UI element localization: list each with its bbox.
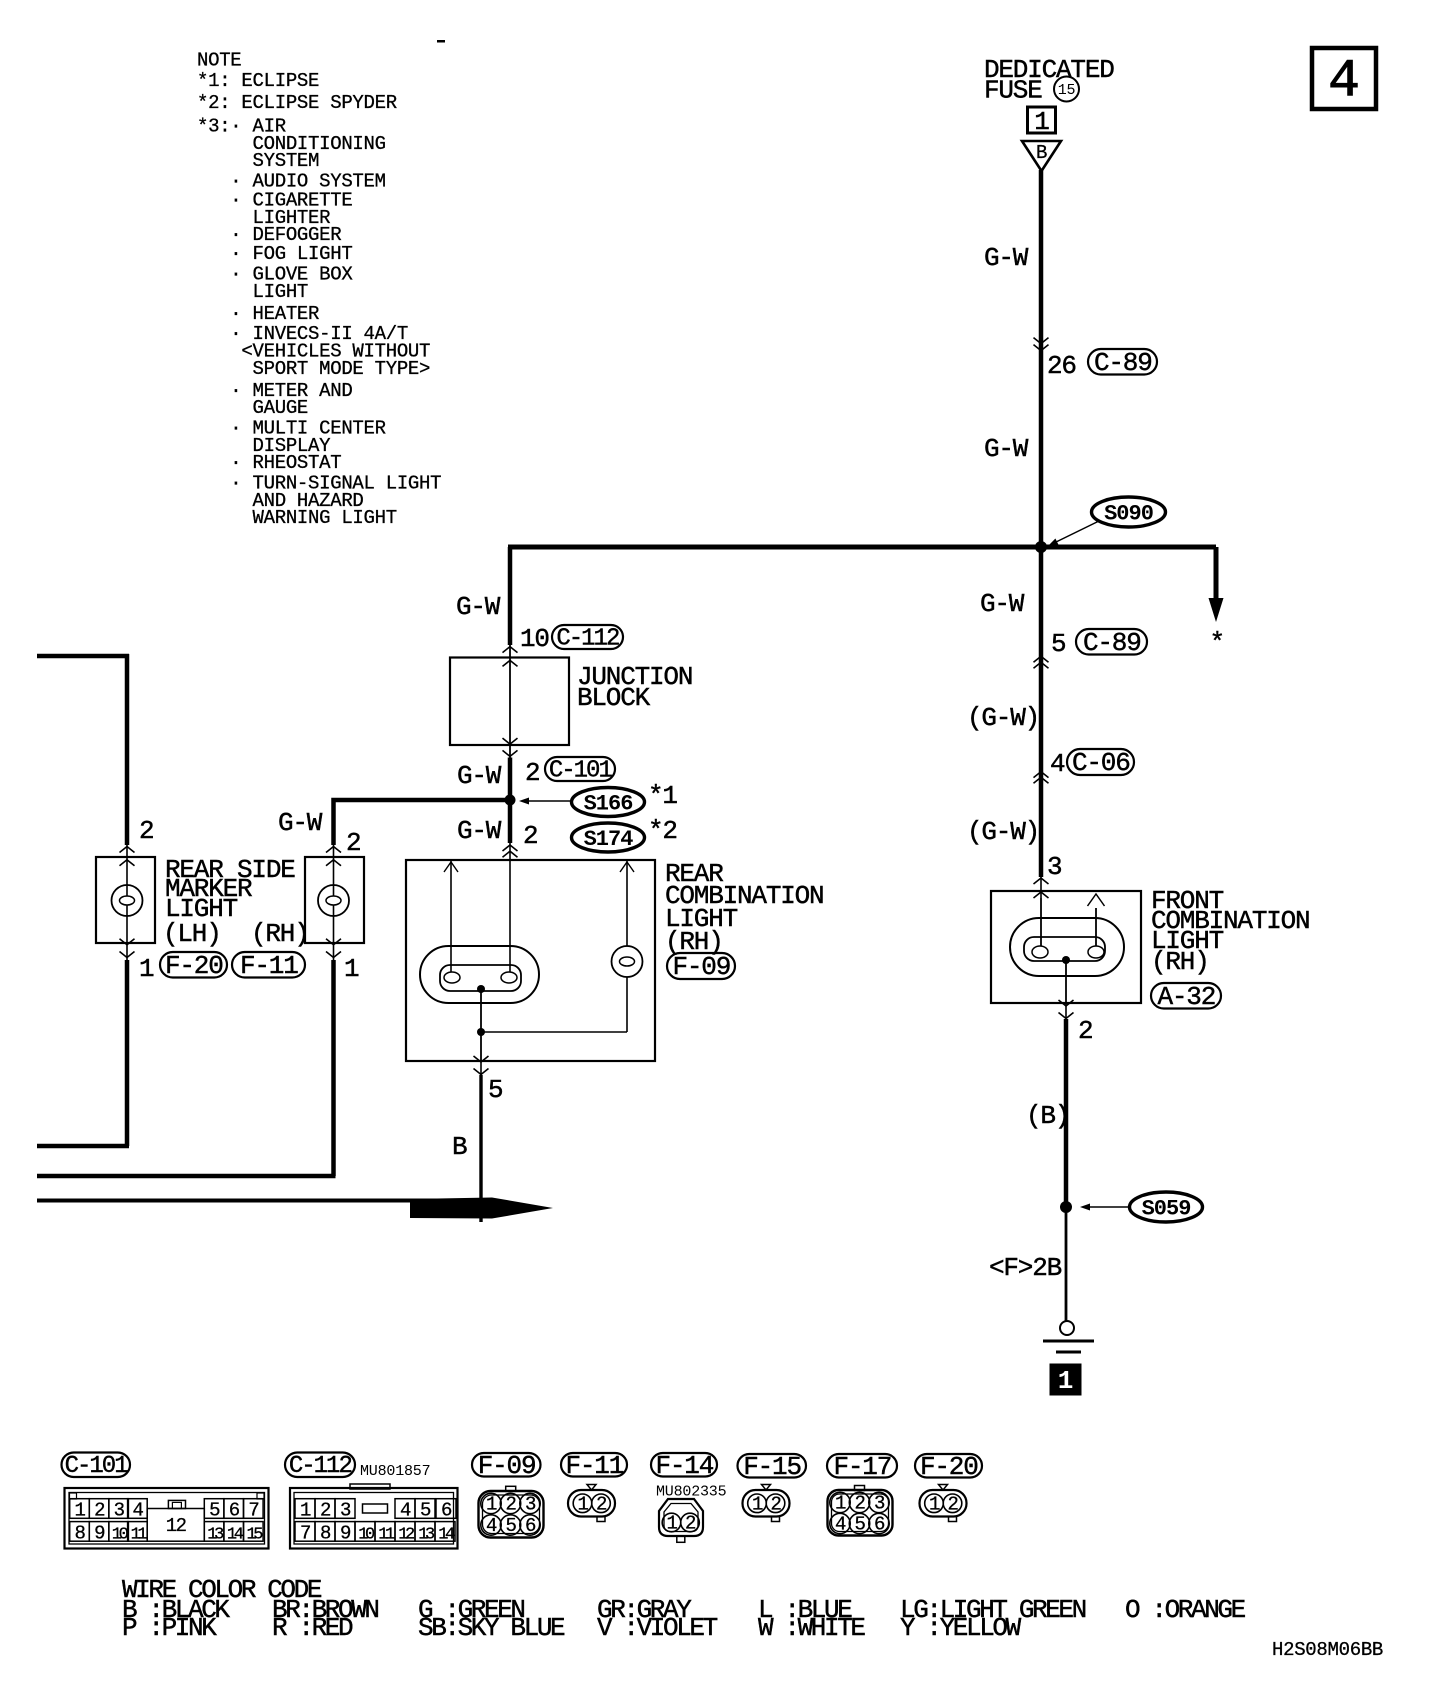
svg-text:9: 9 xyxy=(94,1522,105,1544)
svg-text:12: 12 xyxy=(398,1525,414,1544)
svg-text:*2: *2 xyxy=(648,816,677,846)
svg-text:WARNING LIGHT: WARNING LIGHT xyxy=(197,507,397,529)
svg-text:B: B xyxy=(1036,142,1047,164)
svg-text:F-14: F-14 xyxy=(656,1451,714,1481)
svg-text:2: 2 xyxy=(523,821,537,851)
svg-text:6: 6 xyxy=(525,1515,536,1537)
svg-text:1: 1 xyxy=(578,1493,589,1515)
svg-text:4: 4 xyxy=(1050,749,1065,779)
svg-text:G-W: G-W xyxy=(457,761,502,791)
svg-text:2: 2 xyxy=(855,1493,866,1515)
svg-text:· RHEOSTAT: · RHEOSTAT xyxy=(197,452,341,474)
svg-text:3: 3 xyxy=(114,1500,125,1522)
svg-text:B: B xyxy=(452,1132,467,1162)
svg-text:1: 1 xyxy=(929,1493,940,1515)
svg-text:G-W: G-W xyxy=(457,816,502,846)
svg-text:· FOG LIGHT: · FOG LIGHT xyxy=(197,243,352,265)
svg-text:1: 1 xyxy=(344,954,359,984)
svg-text:MU801857: MU801857 xyxy=(360,1463,430,1480)
svg-text:1: 1 xyxy=(486,1494,497,1516)
svg-text:*1: *1 xyxy=(648,781,677,811)
svg-text:F-17: F-17 xyxy=(834,1452,892,1482)
svg-text:G-W: G-W xyxy=(456,592,501,622)
svg-text:6: 6 xyxy=(874,1514,885,1536)
svg-text:5: 5 xyxy=(1051,629,1065,659)
svg-text:F-09: F-09 xyxy=(478,1451,536,1481)
svg-text:S059: S059 xyxy=(1142,1196,1191,1221)
svg-text:4: 4 xyxy=(1328,52,1360,112)
svg-text:V :VIOLET: V :VIOLET xyxy=(597,1613,718,1643)
svg-text:(RH): (RH) xyxy=(251,919,309,949)
svg-text:10: 10 xyxy=(520,624,549,654)
svg-text:1: 1 xyxy=(75,1500,86,1522)
svg-text:26: 26 xyxy=(1047,351,1076,381)
svg-text:G-W: G-W xyxy=(984,434,1029,464)
svg-text:1: 1 xyxy=(300,1500,311,1522)
svg-text:7: 7 xyxy=(300,1522,310,1544)
svg-text:GAUGE: GAUGE xyxy=(197,397,308,419)
svg-text:W :WHITE: W :WHITE xyxy=(758,1613,865,1643)
svg-text:5: 5 xyxy=(420,1500,431,1522)
svg-text:15: 15 xyxy=(1058,82,1076,99)
svg-text:*1: ECLIPSE: *1: ECLIPSE xyxy=(197,70,319,92)
svg-text:2: 2 xyxy=(948,1493,959,1515)
svg-text:Y :YELLOW: Y :YELLOW xyxy=(900,1613,1022,1643)
svg-text:6: 6 xyxy=(229,1500,240,1522)
svg-text:1: 1 xyxy=(1058,1366,1074,1396)
svg-text:2: 2 xyxy=(139,816,153,846)
svg-text:F-11: F-11 xyxy=(566,1451,624,1481)
svg-text:1: 1 xyxy=(752,1493,763,1515)
svg-text:1: 1 xyxy=(667,1513,678,1535)
svg-text:G-W: G-W xyxy=(980,589,1025,619)
svg-text:G-W: G-W xyxy=(278,808,323,838)
svg-text:SB:SKY BLUE: SB:SKY BLUE xyxy=(418,1613,565,1643)
svg-text:F-20: F-20 xyxy=(165,951,223,981)
svg-text:6: 6 xyxy=(441,1500,452,1522)
svg-text:O :ORANGE: O :ORANGE xyxy=(1125,1595,1246,1625)
svg-text:A-32: A-32 xyxy=(1158,982,1216,1012)
svg-text:7: 7 xyxy=(248,1500,258,1522)
svg-text:C-06: C-06 xyxy=(1072,748,1130,778)
svg-text:BLOCK: BLOCK xyxy=(577,683,651,713)
svg-text:(RH): (RH) xyxy=(1151,947,1209,977)
svg-text:4: 4 xyxy=(400,1500,411,1522)
svg-text:2: 2 xyxy=(525,758,539,788)
svg-text:H2S08M06BB: H2S08M06BB xyxy=(1272,1639,1383,1661)
svg-text:12: 12 xyxy=(166,1515,187,1537)
svg-text:3: 3 xyxy=(874,1493,885,1515)
svg-text:5: 5 xyxy=(209,1500,220,1522)
svg-text:(G-W): (G-W) xyxy=(967,817,1039,847)
svg-text:5: 5 xyxy=(506,1515,517,1537)
svg-text:8: 8 xyxy=(75,1522,86,1544)
svg-text:C-89: C-89 xyxy=(1083,628,1141,658)
svg-text:*2: ECLIPSE SPYDER: *2: ECLIPSE SPYDER xyxy=(197,92,397,114)
svg-text:*: * xyxy=(1210,628,1224,658)
svg-text:2: 2 xyxy=(1078,1016,1092,1046)
svg-text:G-W: G-W xyxy=(984,243,1029,273)
svg-text:C-112: C-112 xyxy=(556,625,619,652)
svg-text:S166: S166 xyxy=(584,791,633,816)
svg-text:C-101: C-101 xyxy=(549,757,613,784)
svg-text:C-112: C-112 xyxy=(289,1453,352,1480)
svg-text:SPORT MODE TYPE>: SPORT MODE TYPE> xyxy=(197,358,430,380)
svg-text:1: 1 xyxy=(139,954,154,984)
svg-text:3: 3 xyxy=(525,1494,536,1516)
svg-text:1: 1 xyxy=(1034,107,1049,137)
svg-text:R :RED: R :RED xyxy=(272,1613,353,1643)
svg-text:4: 4 xyxy=(835,1514,846,1536)
svg-text:S174: S174 xyxy=(584,827,634,852)
svg-text:F-11: F-11 xyxy=(240,951,298,981)
svg-text:LIGHT: LIGHT xyxy=(197,281,308,303)
svg-text:4: 4 xyxy=(486,1515,497,1537)
svg-text:F-15: F-15 xyxy=(743,1452,801,1482)
svg-text:C-89: C-89 xyxy=(1094,348,1152,378)
svg-text:(LH): (LH) xyxy=(163,919,221,949)
svg-text:2: 2 xyxy=(596,1493,607,1515)
svg-text:2: 2 xyxy=(346,828,360,858)
svg-text:F-09: F-09 xyxy=(673,952,731,982)
svg-text:3: 3 xyxy=(1047,852,1061,882)
svg-text:FUSE: FUSE xyxy=(984,76,1042,106)
svg-text:(G-W): (G-W) xyxy=(967,703,1039,733)
svg-text:5: 5 xyxy=(488,1075,502,1105)
svg-text:1: 1 xyxy=(835,1493,846,1515)
svg-text:F-20: F-20 xyxy=(920,1452,978,1482)
svg-text:NOTE: NOTE xyxy=(197,50,241,72)
svg-text:P :PINK: P :PINK xyxy=(122,1613,217,1643)
svg-text:2: 2 xyxy=(320,1500,331,1522)
svg-text:4: 4 xyxy=(132,1500,143,1522)
svg-text:8: 8 xyxy=(320,1522,331,1544)
svg-text:2: 2 xyxy=(506,1494,517,1516)
svg-text:2: 2 xyxy=(94,1500,105,1522)
svg-text:SYSTEM: SYSTEM xyxy=(197,150,319,172)
svg-text:(B): (B) xyxy=(1026,1101,1069,1131)
svg-text:9: 9 xyxy=(340,1522,351,1544)
svg-text:3: 3 xyxy=(340,1500,351,1522)
svg-text:2: 2 xyxy=(685,1513,696,1535)
svg-text:5: 5 xyxy=(855,1514,866,1536)
svg-text:<F>2B: <F>2B xyxy=(989,1253,1062,1283)
svg-text:S090: S090 xyxy=(1104,501,1153,526)
svg-text:C-101: C-101 xyxy=(65,1453,129,1480)
svg-text:2: 2 xyxy=(771,1493,782,1515)
svg-text:· HEATER: · HEATER xyxy=(197,303,319,325)
